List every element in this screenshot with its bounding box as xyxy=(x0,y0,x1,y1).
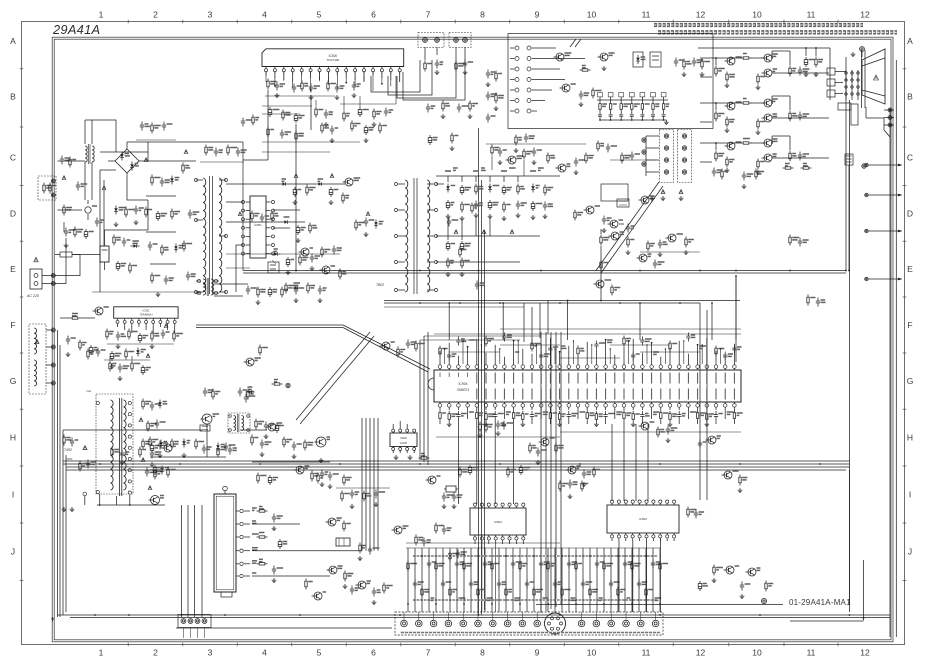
svg-text:3: 3 xyxy=(208,648,213,658)
CRT socket pin field xyxy=(845,70,847,100)
diode D855 xyxy=(274,248,278,250)
warning triangle CRT xyxy=(874,75,879,80)
wire right vertical x846 xyxy=(845,57,847,271)
capacitor C487 xyxy=(631,152,633,156)
resistor R9544 xyxy=(757,119,759,122)
transistor Q854 xyxy=(611,232,619,240)
capacitor C912 xyxy=(265,422,267,426)
resistor R515 xyxy=(252,115,254,118)
svg-text:29A41A: 29A41A xyxy=(52,22,100,37)
capacitor C156 xyxy=(293,442,295,446)
resistor R155 xyxy=(251,435,253,438)
ground xyxy=(442,114,444,116)
resistor R489 xyxy=(685,237,687,240)
resistor R308 xyxy=(125,349,127,352)
wire horizontal bus mid y270 xyxy=(243,270,846,272)
node dots on buses xyxy=(295,270,297,272)
resistor R509 xyxy=(451,133,453,136)
resistor R859 xyxy=(339,269,341,272)
terminal on AC line xyxy=(51,274,55,278)
resistor R445 xyxy=(109,361,111,364)
resistor R858 xyxy=(299,255,301,258)
audio rail 1 xyxy=(265,95,335,97)
ground xyxy=(365,232,367,234)
capacitor C482 xyxy=(533,148,535,152)
transistor Q959 video output xyxy=(764,154,772,162)
connector P907 xyxy=(862,164,866,168)
ground xyxy=(743,184,745,186)
svg-text:11: 11 xyxy=(807,10,816,20)
diode D310 xyxy=(294,282,301,284)
resistor R305 xyxy=(70,317,73,319)
capacitor C903 xyxy=(537,448,539,452)
diode D444 xyxy=(165,467,170,469)
resistor R506 xyxy=(455,61,457,64)
warning triangle xyxy=(146,354,150,358)
bridge rectifier D801-D804 xyxy=(115,149,139,173)
IC901 half-pitch stub forest xyxy=(444,349,446,364)
capacitor C520 xyxy=(204,388,206,392)
transistor Q991 xyxy=(382,342,390,350)
svg-text:8: 8 xyxy=(480,10,485,20)
wire regulator xyxy=(600,246,602,301)
ground xyxy=(287,270,289,272)
svg-text:F: F xyxy=(10,320,15,330)
IC500 per-pin stubs xyxy=(265,76,267,82)
wire controller xyxy=(226,201,243,203)
wire output rail 2 xyxy=(436,235,540,237)
capacitor C991b xyxy=(351,490,353,494)
warning triangles rails xyxy=(454,230,458,234)
resistor R9514 xyxy=(757,74,759,77)
resistor R310 xyxy=(257,287,259,290)
resistor R521 xyxy=(247,389,249,392)
ground tuner xyxy=(273,526,275,528)
resistor R292 xyxy=(139,447,141,450)
ground xyxy=(159,453,161,455)
horizontal drive transformer T403 xyxy=(228,413,250,433)
warning triangle xyxy=(294,174,298,178)
wire bridge to audio ground xyxy=(148,141,243,143)
resistor R405 xyxy=(167,467,169,470)
resistor R826 xyxy=(415,535,417,538)
resistor R294 xyxy=(317,473,319,476)
wire diagonal bus to tuner area xyxy=(296,332,370,420)
op-amp IC801 SMPS controller xyxy=(250,196,266,258)
transistor Q853 xyxy=(586,206,594,214)
wire rail drops xyxy=(447,218,449,240)
line choke L801 xyxy=(85,146,87,162)
transistor Q951 video driver xyxy=(727,57,735,65)
capacitor C443 electrolytic xyxy=(151,443,153,446)
resistor R857 xyxy=(611,285,613,288)
svg-text:01-29A41A-MA1: 01-29A41A-MA1 xyxy=(789,598,851,607)
IC901 top stub forest with decoupling parts xyxy=(439,351,441,365)
wire IC901 risers to top buses xyxy=(448,303,450,340)
capacitor C311 electrolytic xyxy=(269,287,271,290)
svg-text:OM8373: OM8373 xyxy=(457,388,469,392)
svg-text:12: 12 xyxy=(696,648,706,658)
svg-text:11: 11 xyxy=(642,10,651,20)
svg-text:2: 2 xyxy=(153,10,158,20)
resistor R864 xyxy=(307,283,309,286)
connector P951 xyxy=(642,138,646,142)
capacitor C157 xyxy=(321,470,323,474)
op-amp IC500 TDA7496 audio amplifier xyxy=(262,49,404,67)
wire eeprom pullups xyxy=(392,424,394,429)
svg-text:12: 12 xyxy=(696,10,706,20)
capacitor C933 xyxy=(799,238,801,242)
resistor R817 xyxy=(129,263,131,266)
ground xyxy=(515,148,517,150)
transistor Q481 xyxy=(508,156,516,164)
ground xyxy=(726,83,728,85)
capacitor C515 xyxy=(385,108,387,112)
rail labels xyxy=(445,170,451,172)
resistor R901 xyxy=(529,443,531,446)
capacitor C814 xyxy=(96,218,98,222)
tuner TU101 xyxy=(214,494,236,592)
capacitor C305 electrolytic xyxy=(90,345,92,348)
capacitor C962 xyxy=(741,582,743,586)
CRT socket ground box xyxy=(838,103,851,110)
ground xyxy=(119,376,121,378)
resistor R514 xyxy=(295,131,297,134)
diode D301 xyxy=(141,349,146,351)
resistor R295 xyxy=(343,475,345,478)
svg-text:24C56: 24C56 xyxy=(400,442,408,445)
ground xyxy=(325,122,327,124)
resistor R932 xyxy=(459,467,461,470)
keyboard ladder K1-K7 xyxy=(597,99,668,101)
flyback T444 primary winding xyxy=(111,400,114,490)
wire AGC xyxy=(240,429,267,431)
wire horizontal bus y604 xyxy=(536,604,783,606)
EHT lead xyxy=(865,107,867,118)
ground CRT xyxy=(852,52,854,54)
capacitor C293 xyxy=(229,446,231,450)
svg-text:9: 9 xyxy=(535,648,540,658)
resistor R508 xyxy=(469,101,471,104)
resistor R856 xyxy=(627,237,629,240)
capacitor C507 electrolytic xyxy=(295,113,297,116)
capacitor C810 xyxy=(165,276,167,280)
svg-text:G: G xyxy=(10,376,17,386)
wire secondary rails 2 xyxy=(226,253,276,255)
connector P101 column A xyxy=(510,47,515,49)
resistor R991 xyxy=(415,341,417,344)
wire audio drops xyxy=(315,100,317,106)
rectifier diode D851 xyxy=(282,178,287,180)
transistor Q953 video output xyxy=(764,69,772,77)
resistor R306 xyxy=(79,340,81,343)
resistor R9515 xyxy=(789,66,791,69)
resistor R293 xyxy=(217,447,219,450)
CRT anode connector P5 xyxy=(860,47,865,52)
bottom forest rails xyxy=(406,547,660,549)
svg-text:TDA7496: TDA7496 xyxy=(327,58,340,62)
resistor R503 xyxy=(327,81,329,84)
svg-text:7492: 7492 xyxy=(64,448,72,452)
capacitor C102 xyxy=(675,58,677,62)
transistor Q957 video driver xyxy=(727,142,735,150)
capacitor C485 xyxy=(743,172,745,176)
terminal posistor xyxy=(51,179,55,183)
resistor R157 xyxy=(311,471,313,474)
resistor R444 xyxy=(154,469,156,472)
transistor Q856 xyxy=(596,280,604,288)
flyback transformer TB802 windings xyxy=(405,180,408,292)
capacitor C310 xyxy=(247,286,249,290)
svg-text:IC801: IC801 xyxy=(254,223,262,227)
wire right area xyxy=(848,165,850,271)
resistor R991b xyxy=(341,491,343,494)
connector P911 xyxy=(286,383,290,387)
capacitor C442 xyxy=(156,420,158,424)
microcontroller/jungle IC901 OM8373 main processor xyxy=(434,370,741,402)
wire right margin verticals xyxy=(889,108,891,637)
ground AGC xyxy=(261,452,263,454)
warning triangle xyxy=(62,176,66,180)
degauss/yoke connector P903 xyxy=(660,130,674,183)
output rail extra columns xyxy=(536,185,540,187)
resistor R520 xyxy=(212,389,214,392)
main board connector P801 strip xyxy=(395,612,663,635)
resistor R855 xyxy=(574,210,576,213)
flyback T444 secondary winding xyxy=(124,400,127,490)
resistor R921 xyxy=(419,457,422,459)
capacitor C812 xyxy=(61,156,63,160)
ground xyxy=(359,556,361,558)
wire horizontal bus y325 with diagonal to IC901 xyxy=(196,324,343,326)
transistor Q152 xyxy=(296,466,304,474)
ground xyxy=(320,458,322,460)
capacitor C854 xyxy=(333,246,335,250)
wire driver xyxy=(214,283,248,285)
resistor R309 xyxy=(63,435,65,438)
optocoupler U801 xyxy=(268,262,279,273)
flyback terminals xyxy=(128,401,131,404)
speaker connector P502 xyxy=(449,33,471,48)
resistor R9575 xyxy=(789,151,791,154)
svg-text:IC962: IC962 xyxy=(639,517,647,521)
resistor R9572 xyxy=(715,151,717,154)
resistor R934 xyxy=(807,295,809,298)
connector P101 column B xyxy=(527,46,531,50)
ground xyxy=(115,222,117,224)
transistor Q901 xyxy=(428,476,436,484)
capacitor C930 filter xyxy=(805,57,807,60)
capacitor C904 xyxy=(583,470,585,474)
capacitor C913 electrolytic xyxy=(276,423,278,426)
capacitor C934 xyxy=(817,298,819,302)
capacitor C931a xyxy=(497,421,499,425)
resistor R472 xyxy=(600,260,602,263)
capacitor C813 xyxy=(77,182,79,186)
CRT picture tube funnel xyxy=(862,49,885,104)
ground xyxy=(111,364,113,366)
ground xyxy=(121,460,123,462)
resistor R9545 xyxy=(789,111,791,114)
resistor R933 xyxy=(789,235,791,238)
ground xyxy=(805,72,807,74)
capacitor C862 xyxy=(295,286,297,290)
main schematic double border xyxy=(52,37,893,642)
small box SVM xyxy=(601,184,628,201)
svg-text:4: 4 xyxy=(262,648,267,658)
capacitor C902 xyxy=(453,493,455,497)
capacitor C857 electrolytic xyxy=(287,257,289,260)
resistor R812 xyxy=(69,157,71,160)
warning triangle AC xyxy=(34,257,38,262)
connector P906 xyxy=(761,598,766,603)
svg-text:4: 4 xyxy=(262,10,267,20)
wire corner arrow bottom-right x863 xyxy=(863,560,865,618)
tuner pins xyxy=(236,510,239,512)
wire flyback top xyxy=(104,359,150,361)
transistor Q803 xyxy=(314,592,322,600)
capacitor C824 xyxy=(443,526,445,530)
svg-text:I: I xyxy=(909,490,911,500)
capacitor C851 electrolytic xyxy=(294,187,296,190)
ground xyxy=(726,128,728,130)
capacitor C821 xyxy=(351,586,353,590)
ground crystal xyxy=(443,504,445,506)
resistor R852 xyxy=(342,193,344,196)
capacitor C506 electrolytic xyxy=(269,107,271,110)
capacitor C152 electrolytic xyxy=(279,539,281,542)
resistor R808 xyxy=(161,245,163,248)
capacitor C308 xyxy=(71,438,73,442)
wire IC962 bottom drops xyxy=(618,541,620,612)
resistor R471 xyxy=(600,235,602,238)
antenna slash marks xyxy=(570,39,576,47)
wire AC to bridge xyxy=(53,255,80,276)
resistor R863 xyxy=(285,283,287,286)
capacitor C475 xyxy=(448,218,450,222)
resistor R861 xyxy=(251,211,253,214)
svg-text:7: 7 xyxy=(426,10,431,20)
warning triangle xyxy=(238,212,242,216)
resistor R102 xyxy=(592,88,594,91)
wire EHT drop to margin xyxy=(883,118,885,130)
capacitor C932 electrolytic xyxy=(469,465,471,468)
capacitor C441 xyxy=(151,402,153,406)
transistor Q903 xyxy=(568,466,576,474)
capacitor C859 xyxy=(365,218,367,222)
capacitor C825 xyxy=(369,546,371,550)
capacitor C513 xyxy=(325,110,327,114)
terminals degauss xyxy=(51,328,55,332)
resistor R930 xyxy=(815,57,817,60)
capacitor C144 xyxy=(525,134,527,138)
capacitor C852 electrolytic xyxy=(330,187,332,190)
capacitor C301 xyxy=(117,332,119,336)
wire HOT xyxy=(145,429,202,431)
inductor L471 xyxy=(617,199,629,207)
capacitor C488 xyxy=(659,240,661,244)
ground xyxy=(580,102,582,104)
capacitor C521 xyxy=(239,388,241,392)
resistor R912 xyxy=(272,383,275,385)
transistor Q801 xyxy=(329,566,337,574)
ground xyxy=(499,160,501,162)
varistor RV801 xyxy=(85,207,91,213)
transistor Q804 xyxy=(394,526,402,534)
front control panel section box xyxy=(508,34,713,129)
transistor Q857 xyxy=(322,266,330,274)
round connector P802 xyxy=(545,613,566,634)
ground eeprom xyxy=(395,455,397,457)
svg-text:10: 10 xyxy=(587,10,597,20)
wire yoke harness xyxy=(646,135,659,137)
capacitor C481 xyxy=(499,148,501,152)
resistor R501 xyxy=(267,79,269,82)
resistor R476 xyxy=(459,247,461,250)
capacitor C905 electrolytic xyxy=(520,465,522,468)
eeprom IC902 24C56 xyxy=(390,433,417,447)
resistor R158 xyxy=(257,473,259,476)
wire IC962 feed verticals xyxy=(699,303,701,500)
ground xyxy=(344,584,346,586)
wire right stubs with arrows xyxy=(869,164,901,166)
resistor R142 xyxy=(495,93,497,96)
capacitor C853 xyxy=(297,225,299,228)
transistor Q103 xyxy=(562,84,570,92)
capacitor C504 xyxy=(336,84,338,88)
resistor R481 xyxy=(491,145,493,148)
snubber diode D805 xyxy=(175,177,180,179)
svg-text:1: 1 xyxy=(99,10,104,20)
resistor R962 xyxy=(713,565,715,568)
capacitor C142 xyxy=(487,92,489,96)
wire horizontal bottom bus y615 xyxy=(57,614,890,616)
capacitor C519 electrolytic xyxy=(365,125,367,128)
svg-text:B: B xyxy=(10,92,16,102)
capacitor C901 xyxy=(443,493,445,497)
ground secondary xyxy=(294,200,296,202)
ground xyxy=(683,72,685,74)
capacitor C863 xyxy=(319,286,321,290)
resistor R806 xyxy=(145,207,147,210)
transistor Q482 xyxy=(558,164,566,172)
svg-text:IC301: IC301 xyxy=(143,309,150,313)
resistor R818 xyxy=(182,163,184,166)
wire x736 vertical xyxy=(735,276,737,362)
resistor R513 xyxy=(267,127,269,130)
resistor R104 xyxy=(701,59,703,62)
diode D403 xyxy=(187,440,191,442)
ground xyxy=(713,578,715,580)
resistor R913 xyxy=(255,419,257,422)
wire yoke diagonals xyxy=(596,182,659,271)
diode D402 xyxy=(221,444,225,446)
secondary output columns xyxy=(447,176,449,182)
transistor Q101 xyxy=(556,53,564,61)
speaker connector P501 xyxy=(418,33,444,48)
resistor R824 xyxy=(435,523,437,526)
resistor R819 xyxy=(183,241,185,244)
resistor R931a xyxy=(479,422,481,425)
wire audio mesh xyxy=(262,105,312,107)
capacitor C817 xyxy=(123,238,125,242)
svg-text:A: A xyxy=(10,36,16,46)
resistor R518 xyxy=(379,123,381,126)
capacitor C855 xyxy=(603,216,605,220)
capacitor C509 xyxy=(464,60,466,64)
ground flyback xyxy=(63,507,65,509)
ground yoke xyxy=(661,190,665,194)
